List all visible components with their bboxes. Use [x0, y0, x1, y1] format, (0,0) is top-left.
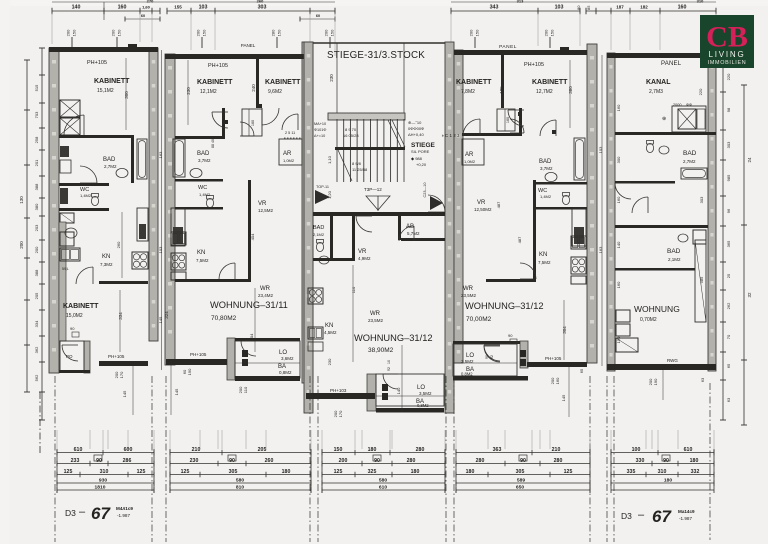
svg-text:7,8M2: 7,8M2 [461, 89, 475, 95]
strip1 wall wc/kn [59, 208, 109, 211]
svg-text:3,5M2: 3,5M2 [461, 359, 474, 364]
svg-text:PANEL: PANEL [499, 44, 517, 50]
strip1 wardrobe boxes [60, 100, 80, 117]
svg-text:–: – [79, 506, 86, 518]
svg-text:180: 180 [411, 469, 420, 475]
svg-text:KANAL: KANAL [646, 79, 671, 86]
svg-text:+0,20: +0,20 [416, 162, 427, 167]
svg-text:145: 145 [174, 388, 179, 395]
strip2 wall bad/wc [175, 179, 223, 182]
svg-text:60: 60 [316, 14, 320, 18]
strip4 bathtub [574, 138, 585, 180]
strip3 bottom wall [306, 393, 375, 399]
svg-text:140: 140 [72, 5, 81, 11]
svg-text:203: 203 [34, 224, 39, 231]
strip4 kitchen fixtures [571, 257, 586, 274]
strip5 wall bad2 bottom [615, 268, 695, 271]
strip5 kitchen boxes [616, 310, 630, 322]
svg-text:WC: WC [198, 185, 207, 191]
svg-text:1,4M2: 1,4M2 [80, 193, 92, 198]
svg-text:110: 110 [351, 286, 356, 293]
svg-text:325: 325 [368, 469, 377, 475]
svg-text:2000: 2000 [673, 103, 681, 107]
strip3 loggia divider [376, 395, 444, 397]
strip5 bad2 fixtures [678, 234, 688, 242]
svg-text:310: 310 [100, 469, 109, 475]
strip1 washbasin oval upper [65, 228, 77, 238]
svg-text:90: 90 [508, 333, 513, 338]
strip5 left party wall [607, 53, 615, 371]
svg-text:260: 260 [265, 458, 274, 464]
logo CB Living Immobilien [700, 15, 754, 68]
strip1 washbasin [116, 168, 128, 177]
svg-text:M4л1с9: M4л1с9 [116, 506, 133, 511]
svg-text:LIVING: LIVING [708, 50, 745, 59]
strip4 right party wall [587, 44, 597, 363]
svg-text:24: 24 [747, 157, 752, 163]
svg-text:103: 103 [555, 5, 564, 11]
svg-text:580: 580 [236, 478, 244, 484]
svg-text:145: 145 [158, 316, 163, 323]
svg-text:160: 160 [616, 281, 621, 288]
strip4 bottom wall [527, 362, 587, 367]
svg-text:125: 125 [137, 469, 146, 475]
svg-text:Δ+=10: Δ+=10 [314, 134, 325, 138]
svg-text:1,4M2: 1,4M2 [540, 194, 552, 199]
strip5 top wall [607, 53, 716, 58]
strip2 washbasin [190, 168, 202, 177]
top dimension chain cut-off row [52, 1, 335, 3]
svg-text:280: 280 [554, 458, 563, 464]
strip1 kitchen sink [60, 248, 80, 261]
strip5 right party wall [708, 53, 716, 371]
strip4 vertical wall kn/wr [533, 180, 536, 280]
svg-text:210: 210 [552, 447, 561, 453]
svg-text:WR: WR [370, 311, 381, 317]
strip5 wall bad bottom [615, 181, 675, 184]
strip1 left party wall [49, 48, 59, 373]
svg-text:KABINETT: KABINETT [265, 79, 301, 86]
svg-text:140: 140 [396, 387, 401, 394]
svg-text:Mа14с9: Mа14с9 [678, 509, 695, 514]
svg-text:32: 32 [747, 292, 752, 298]
strip1 wall bad/wc [59, 183, 109, 186]
strip4 washbasin [545, 172, 557, 181]
svg-text:335: 335 [627, 469, 636, 475]
svg-text:160: 160 [118, 5, 127, 11]
svg-text:2,7M3: 2,7M3 [649, 89, 663, 95]
svg-text:KN: KN [325, 323, 333, 329]
top dimension chain group 1 (strip 1) [52, 10, 160, 12]
svg-text:KN: KN [102, 254, 110, 260]
svg-text:IMMOBILIEN: IMMOBILIEN [708, 60, 747, 66]
bottom dimension block strip2 [170, 452, 311, 454]
strip1 inner wall lower left [59, 222, 66, 341]
svg-text:262: 262 [726, 302, 731, 309]
svg-text:103: 103 [158, 246, 163, 253]
svg-text:–: – [638, 509, 645, 521]
svg-text:63: 63 [700, 377, 705, 382]
strip3 loggia door arc [383, 374, 398, 389]
svg-text:-1.987: -1.987 [117, 513, 130, 518]
svg-text:67: 67 [652, 507, 672, 526]
svg-text:258: 258 [34, 136, 39, 143]
strip1 toilet [91, 196, 98, 205]
svg-text:610: 610 [684, 447, 693, 453]
svg-text:310: 310 [658, 469, 667, 475]
svg-text:150: 150 [72, 29, 77, 36]
witness lines top chains to walls [51, 13, 53, 44]
svg-text:303: 303 [258, 5, 267, 11]
svg-text:12,5M2: 12,5M2 [258, 208, 274, 213]
svg-text:59|L: 59|L [62, 267, 69, 271]
strip4 left party wall [454, 50, 463, 363]
svg-text:ΦΦ: ΦΦ [686, 103, 692, 107]
top dimension second row segments [125, 18, 160, 20]
svg-text:100: 100 [632, 447, 641, 453]
svg-text:CB: CB [706, 21, 748, 54]
strip1 vertical wall right of bad [131, 138, 134, 183]
svg-text:200: 200 [324, 29, 329, 36]
svg-text:VR: VR [477, 200, 486, 206]
svg-text:D3: D3 [621, 511, 632, 521]
top dimension chain group 2 (strip 2) [167, 10, 335, 12]
svg-text:334: 334 [118, 312, 123, 320]
svg-text:38,90M2: 38,90M2 [368, 347, 394, 354]
svg-text:80: 80 [576, 5, 581, 10]
svg-text:280: 280 [476, 458, 485, 464]
strip1 tall fixture fridge [137, 208, 148, 241]
svg-text:⊕: ⊕ [662, 116, 666, 122]
svg-text:365: 365 [726, 240, 731, 247]
svg-text:589: 589 [517, 478, 525, 484]
svg-text:303: 303 [699, 196, 704, 203]
svg-text:985: 985 [699, 276, 704, 283]
strip4 wall bad/wc [536, 182, 587, 185]
strip4 shaft box [497, 109, 515, 131]
svg-text:150: 150 [334, 447, 343, 453]
svg-text:140: 140 [616, 241, 621, 248]
svg-text:67: 67 [91, 504, 111, 523]
svg-text:562: 562 [34, 374, 39, 381]
strip3 landing slab [328, 113, 405, 120]
strip3 interior walls vr [330, 216, 333, 260]
strip1 dark fixtures left wall [60, 146, 69, 157]
svg-text:0ΦΦ00Φ: 0ΦΦ00Φ [408, 126, 424, 131]
svg-text:0,8M2: 0,8M2 [417, 403, 429, 408]
svg-text:65: 65 [579, 368, 584, 373]
svg-text:363: 363 [493, 447, 502, 453]
svg-text:190: 190 [187, 368, 192, 375]
svg-text:160: 160 [678, 5, 687, 11]
svg-text:2,1M2: 2,1M2 [668, 257, 681, 262]
svg-text:160: 160 [555, 377, 560, 384]
strip4 toilet [562, 195, 569, 204]
strip2 bathtub [173, 139, 185, 177]
svg-text:130: 130 [19, 196, 24, 204]
svg-text:WOHNUNG–31/12: WOHNUNG–31/12 [465, 301, 544, 311]
bottom dimension block strip4 [456, 452, 590, 454]
svg-text:23,4M2: 23,4M2 [258, 293, 274, 298]
svg-text:Φ101Φ: Φ101Φ [314, 128, 326, 132]
svg-text:270: 270 [147, 0, 154, 4]
svg-text:BAD: BAD [197, 151, 210, 157]
svg-text:12,50M2: 12,50M2 [474, 207, 492, 212]
svg-text:200: 200 [19, 241, 24, 249]
bottom window symbol strip1 [94, 455, 102, 461]
svg-text:610: 610 [379, 485, 387, 491]
svg-text:PH+103: PH+103 [330, 388, 347, 393]
svg-text:205: 205 [34, 292, 39, 299]
strip1 right party wall [149, 48, 158, 341]
strip2 top wall [165, 54, 313, 59]
strip2 wall wc/kn [175, 207, 223, 210]
svg-text:303: 303 [726, 141, 731, 148]
svg-text:65: 65 [726, 363, 731, 368]
svg-text:125: 125 [564, 469, 573, 475]
strip2 hall walls [222, 108, 225, 139]
strip3 stair flight treads [336, 119, 338, 182]
svg-text:1810: 1810 [95, 485, 106, 491]
strip3 stair mid rail [335, 147, 405, 150]
svg-text:362: 362 [34, 346, 39, 353]
svg-text:230: 230 [327, 358, 332, 365]
svg-text:305: 305 [516, 469, 525, 475]
strip3 door arc right C23-10 [428, 195, 445, 212]
svg-text:200: 200 [66, 29, 71, 36]
svg-text:ΔH+0,40: ΔH+0,40 [408, 132, 424, 137]
svg-text:163: 163 [158, 151, 163, 158]
svg-text:280: 280 [416, 447, 425, 453]
strip1 door arc kabinett [64, 115, 84, 135]
svg-text:150: 150 [330, 29, 335, 36]
strip1 door arc bad [80, 166, 97, 183]
svg-text:WR: WR [260, 286, 271, 292]
bottom window symbol strip4 [519, 455, 527, 461]
right vertical dimension chain inner [722, 62, 724, 420]
svg-text:KABINETT: KABINETT [63, 303, 99, 310]
svg-text:PH+105: PH+105 [524, 62, 544, 68]
svg-text:200: 200 [469, 29, 474, 36]
svg-text:VR: VR [258, 201, 267, 207]
bottom window symbol strip5 [662, 455, 670, 461]
svg-text:WOHNUNG: WOHNUNG [634, 304, 680, 314]
strip2 loggia [227, 338, 235, 380]
svg-text:3,5M2: 3,5M2 [419, 391, 432, 396]
svg-text:103: 103 [199, 5, 208, 11]
dash-dot section lines bottom [54, 376, 56, 542]
strip2 toilet [206, 198, 213, 207]
svg-text:7,5M2: 7,5M2 [538, 260, 551, 265]
svg-text:110: 110 [243, 386, 248, 393]
svg-text:BAD: BAD [103, 157, 116, 163]
svg-text:160: 160 [616, 196, 621, 203]
svg-text:388: 388 [34, 269, 39, 276]
strip1 wall kabinett/bad [59, 135, 134, 138]
strip3 left party wall [304, 42, 313, 413]
strip5 wall kanal/bad [615, 132, 716, 135]
svg-text:STIEGE-31/3.STOCK: STIEGE-31/3.STOCK [327, 50, 425, 61]
svg-text:190: 190 [653, 378, 658, 385]
svg-text:3,6M2: 3,6M2 [281, 356, 294, 361]
strip4 wall kn/wr bottom [486, 279, 536, 282]
svg-text:VR: VR [358, 249, 367, 255]
bottom dimension block strip1 [57, 452, 154, 454]
strip2 wall kn/wr bottom [175, 279, 251, 282]
svg-text:160: 160 [506, 117, 510, 123]
svg-text:343: 343 [490, 5, 499, 11]
bottom dimension block strip3 [322, 452, 445, 454]
svg-text:650: 650 [516, 485, 524, 491]
strip1 kitchen counter [60, 232, 74, 246]
strip3 loggia [367, 374, 376, 411]
strip5 shaft cluster [672, 106, 706, 132]
svg-text:210: 210 [192, 447, 201, 453]
svg-text:PANEL: PANEL [241, 43, 256, 48]
svg-text:1,10: 1,10 [327, 155, 332, 164]
svg-text:286: 286 [123, 458, 132, 464]
svg-text:304: 304 [562, 326, 567, 334]
svg-text:5,7M2: 5,7M2 [407, 231, 420, 236]
svg-text:280: 280 [271, 29, 276, 36]
svg-text:15,1M2: 15,1M2 [97, 88, 114, 94]
svg-text:98: 98 [726, 107, 731, 112]
svg-text:AR: AR [465, 152, 474, 158]
svg-text:◑ C 1 2 3: ◑ C 1 2 3 [441, 133, 460, 138]
svg-text:BAD: BAD [313, 225, 324, 231]
strip1 bottom wall [99, 361, 148, 366]
svg-text:◆ 988: ◆ 988 [411, 156, 423, 161]
svg-text:2 5 11: 2 5 11 [285, 131, 295, 135]
svg-text:125: 125 [64, 469, 73, 475]
svg-text:90: 90 [70, 326, 75, 331]
strip5 washbasin [659, 146, 669, 154]
svg-text:BAD: BAD [683, 150, 697, 157]
svg-text:230: 230 [186, 87, 191, 95]
svg-text:4,5M2: 4,5M2 [324, 330, 337, 335]
roof stub dims above strip walls [71, 37, 73, 48]
svg-text:580: 580 [379, 478, 387, 484]
svg-text:D3: D3 [65, 508, 76, 518]
svg-text:380: 380 [34, 203, 39, 210]
strip3 stair cut diagonals [392, 120, 405, 147]
svg-text:703: 703 [34, 111, 39, 118]
svg-text:600: 600 [124, 447, 133, 453]
svg-text:70,80M2: 70,80M2 [211, 315, 237, 322]
chimney blob on strip1 top wall [128, 44, 137, 49]
strip2 loggia divider [235, 362, 300, 364]
svg-text:23,5M2: 23,5M2 [461, 293, 477, 298]
svg-text:125: 125 [181, 469, 190, 475]
svg-text:12,7M2: 12,7M2 [536, 89, 553, 95]
strip4 loggia arc [484, 345, 500, 361]
svg-text:0,8M2: 0,8M2 [279, 370, 292, 375]
strip2 door arcs hall [212, 112, 228, 128]
svg-text:23,5M2: 23,5M2 [368, 318, 384, 323]
svg-text:201: 201 [34, 159, 39, 166]
svg-text:PH+105: PH+105 [545, 356, 562, 361]
strip5 wall mid [615, 225, 708, 228]
witness lines walls to bottom chains [56, 430, 58, 449]
svg-text:KABINETT: KABINETT [197, 79, 233, 86]
chimney blob on strip4 top wall [560, 47, 569, 52]
svg-text:170: 170 [338, 410, 343, 417]
svg-text:KN: KN [539, 252, 547, 258]
svg-text:985: 985 [726, 174, 731, 181]
strip4 closet AR [462, 139, 484, 165]
strip2 wall between kabinetts [256, 59, 259, 108]
svg-text:334: 334 [34, 320, 39, 327]
strip4 top wall [454, 50, 587, 55]
strip3 door arcs vr [356, 216, 372, 232]
svg-text:260: 260 [116, 241, 121, 248]
svg-text:200: 200 [339, 458, 348, 464]
svg-text:16 05/28: 16 05/28 [343, 133, 359, 138]
svg-text:96: 96 [726, 208, 731, 213]
svg-text:4,9M2: 4,9M2 [358, 256, 371, 261]
bottom window symbol strip2 [228, 455, 236, 461]
strip4 wall wc/kn [536, 207, 587, 210]
svg-text:9,6M2: 9,6M2 [268, 89, 282, 95]
svg-text:WR: WR [463, 286, 474, 292]
svg-text:220: 220 [726, 73, 731, 80]
strip1 kn dim line [121, 212, 123, 278]
svg-text:-1.987: -1.987 [679, 516, 692, 521]
svg-text:324: 324 [164, 311, 169, 319]
svg-text:145: 145 [122, 390, 127, 397]
svg-text:200: 200 [196, 29, 201, 36]
strip2 right party wall [302, 42, 313, 383]
bottom dimension block strip5 [611, 452, 714, 454]
svg-text:180: 180 [368, 447, 377, 453]
svg-text:487: 487 [517, 236, 522, 243]
svg-text:60: 60 [141, 14, 145, 18]
svg-text:PANEL: PANEL [661, 61, 682, 67]
svg-text:15,0M2: 15,0M2 [66, 313, 83, 319]
gap line between strip4 and strip5 [601, 55, 603, 366]
strip2 door arc kn [219, 263, 235, 279]
strip1 loggia walls [84, 341, 90, 373]
top dimension chain group 4 (strip 5) [586, 10, 716, 12]
strip1 stove [132, 252, 148, 269]
svg-text:KABINETT: KABINETT [456, 79, 492, 86]
strip3 stairwell side lines [336, 43, 338, 115]
svg-text:PH+105: PH+105 [87, 60, 107, 66]
svg-text:1,60: 1,60 [142, 5, 151, 10]
svg-text:0,70M2: 0,70M2 [640, 317, 657, 323]
svg-text:230: 230 [329, 74, 334, 82]
svg-text:SIL PORE: SIL PORE [411, 149, 430, 154]
svg-text:200: 200 [544, 29, 549, 36]
svg-text:313: 313 [517, 0, 524, 4]
strip4 door arc kn [520, 263, 536, 279]
strip4 hall door blobs [518, 112, 522, 116]
strip2 bottom wall loggia [235, 376, 300, 381]
svg-text:150: 150 [550, 29, 555, 36]
strip2 closet AR [279, 139, 302, 165]
svg-text:233: 233 [71, 458, 80, 464]
strip2 left party wall [165, 54, 175, 365]
strip1 small shaft boxes left [60, 213, 74, 223]
svg-text:515: 515 [34, 84, 39, 91]
svg-text:125: 125 [334, 469, 343, 475]
svg-text:70: 70 [726, 334, 731, 339]
svg-text:205: 205 [258, 447, 267, 453]
strip4 loggia divider [453, 362, 517, 364]
svg-text:85: 85 [586, 5, 591, 10]
svg-text:2,7M2: 2,7M2 [683, 159, 696, 164]
svg-text:1,0M2: 1,0M2 [464, 159, 476, 164]
